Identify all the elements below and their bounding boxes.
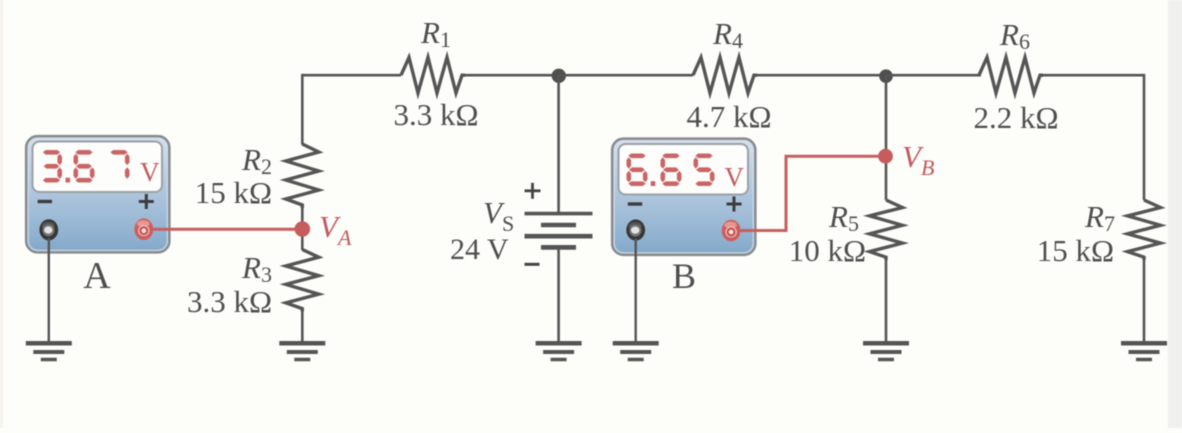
svg-text:3.3 kΩ: 3.3 kΩ (393, 97, 478, 132)
red test lead meter B to node VB (740, 156, 879, 230)
wire R5 to ground (885, 260, 888, 342)
red test lead meter A to node VA (152, 228, 297, 231)
wire R7 to ground (1143, 260, 1146, 342)
svg-text:3.3 kΩ: 3.3 kΩ (187, 284, 272, 319)
node junction above VB (879, 69, 893, 83)
wire top-left horizontal from corner to R1 (302, 74, 401, 77)
resistor R3 (286, 250, 319, 312)
wire R1 to center node (465, 74, 559, 77)
ground below meter B (613, 341, 659, 346)
wire R6 to top-right corner (1041, 74, 1144, 77)
wire R3 to ground (301, 312, 304, 343)
battery VS 24V plates (525, 212, 593, 216)
wire R2 to node A (301, 208, 304, 250)
resistor R2 (286, 144, 319, 208)
voltmeter A body and display 3.67V (27, 137, 170, 253)
wire center node down to battery (557, 75, 560, 212)
ground below R5 (863, 341, 909, 346)
node VB red dot (878, 149, 893, 164)
battery plus sign (525, 189, 541, 192)
ground below R3 (279, 341, 325, 346)
wire right vertical corner down to R7 (1143, 74, 1146, 200)
wire node down to VB (885, 75, 888, 200)
svg-text:A: A (83, 255, 111, 297)
ground below R7 (1121, 341, 1167, 346)
ground below meter A (26, 341, 72, 346)
wire node to R6 (886, 74, 981, 77)
ground below battery (536, 341, 582, 346)
node junction at top of Vs (552, 69, 566, 83)
svg-text:15 kΩ: 15 kΩ (1037, 233, 1114, 268)
battery minus sign (525, 263, 540, 266)
resistor R4 (693, 57, 757, 93)
resistor R5 (870, 200, 903, 260)
resistor R1 (401, 57, 465, 93)
wire left vertical corner down to R2 (301, 74, 304, 145)
voltmeter B body and display 6.65V (613, 139, 756, 255)
svg-text:10 kΩ: 10 kΩ (789, 233, 866, 268)
svg-text:4.7 kΩ: 4.7 kΩ (686, 99, 771, 134)
svg-text:2.2 kΩ: 2.2 kΩ (973, 100, 1058, 135)
svg-text:24 V: 24 V (450, 233, 509, 266)
wire meter A negative terminal to ground (48, 238, 50, 342)
wire R4 to node B column (757, 74, 886, 77)
svg-text:B: B (672, 256, 696, 296)
wire center node to R4 (559, 74, 693, 77)
svg-text:15 kΩ: 15 kΩ (195, 175, 272, 210)
resistor R6 (979, 57, 1043, 93)
wire battery to ground (557, 247, 560, 342)
wire meter B negative terminal to ground (635, 239, 637, 343)
resistor R7 (1128, 200, 1161, 260)
node VA red dot (295, 221, 311, 237)
svg-text:V: V (725, 162, 745, 192)
svg-text:V: V (140, 157, 160, 187)
